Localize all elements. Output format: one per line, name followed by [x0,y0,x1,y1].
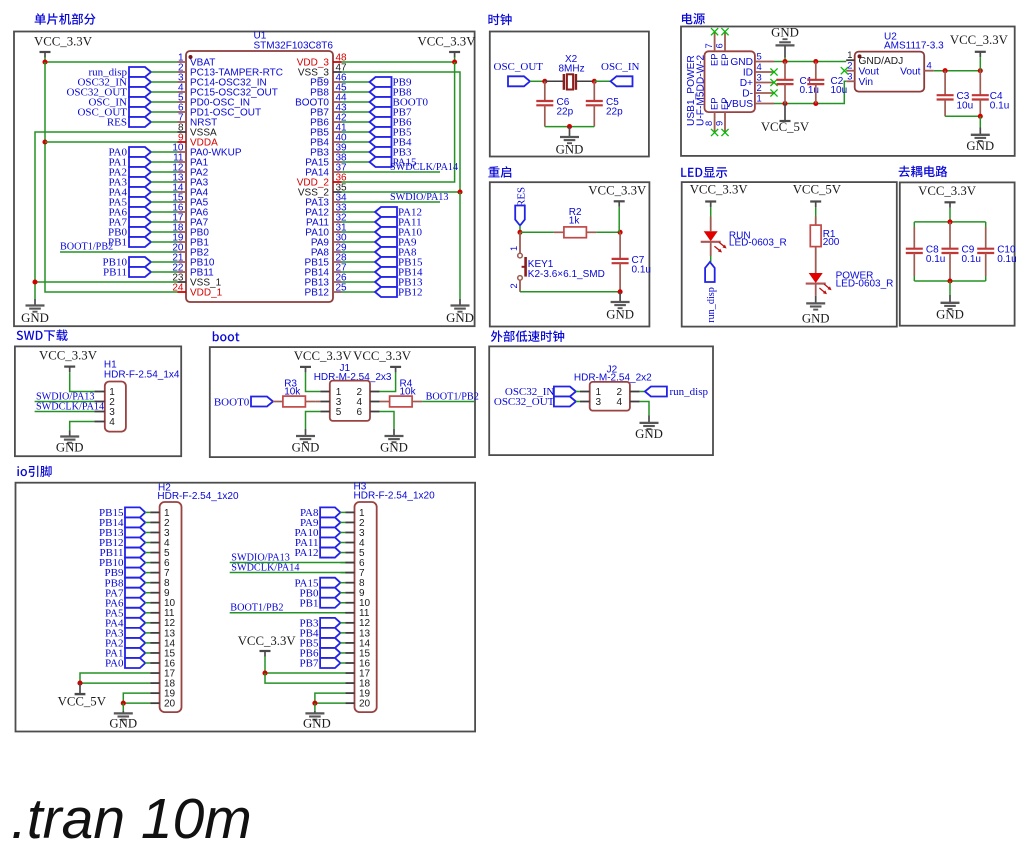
port PA9 (H3 pin 2) [300,517,340,529]
U1 pin 30 (PA9) [311,232,347,248]
svg-text:run_disp: run_disp [670,386,709,398]
wire C8 bottom [913,276,915,281]
U1 pin 8 (VSSA) [178,122,218,138]
port PA9 (U1 pin 30) [342,237,418,249]
port BOOT0 [214,396,273,408]
node junction GND/C2 [813,59,818,64]
U1 pin 7 (NRST) [178,112,218,128]
U1 pin 2 (PC13-TAMPER-RTC) [178,62,283,78]
svg-text:GND: GND [635,427,663,441]
wire Vout rail [934,70,981,72]
U1 pin 16 (PA6) [172,202,208,218]
capacitor C4 0.1u [972,71,1009,117]
wire top rail [914,221,985,223]
port PA2 (H2 pin 14) [105,638,145,650]
svg-text:25: 25 [336,282,348,293]
net label BOOT1/PB2 (H3 pin11) [230,602,355,613]
H2 pin 13 [145,628,175,639]
svg-text:VBUS: VBUS [725,99,753,110]
H3 pin 7 [340,568,365,579]
svg-text:SWDCLK/PA14: SWDCLK/PA14 [390,162,458,173]
port PA5 (H2 pin 11) [105,607,145,619]
port run_disp (pointing up) [705,262,717,323]
H1 pin 3 [94,407,115,418]
port PB4 (U1 pin 40) [342,137,412,149]
wire H3 pin20 [315,702,345,704]
U2 pin 3 (Vin) [846,70,873,88]
svg-text:EP: EP [709,53,720,66]
H1 pin 4 [94,417,115,428]
port PB7 (U1 pin 43) [342,107,412,119]
svg-text:GND/ADJ: GND/ADJ [859,56,904,67]
svg-text:VCC_3.3V: VCC_3.3V [588,184,647,198]
U1 pin 20 (PB2) [172,242,209,258]
svg-text:1: 1 [757,93,762,104]
port run_disp (lse) [645,386,709,398]
U1 pin 19 (PB1) [172,232,209,248]
wire bottom rail [914,280,985,282]
capacitor C10 0.1u [977,227,1016,276]
port PB10 (H2 pin 6) [99,557,145,569]
svg-text:HDR-F-2.54_1x20: HDR-F-2.54_1x20 [157,491,239,502]
port PB1 (H3 pin 10) [300,597,341,609]
H1 pin 2 [94,397,115,408]
port PB6 (U1 pin 42) [342,117,412,129]
port PA11 (H3 pin 4) [295,537,341,549]
power flag VCC_5V (POWER led) [793,182,842,207]
svg-text:4: 4 [617,397,623,408]
svg-text:GND: GND [303,717,331,731]
power flag VCC_3.3V (boot left) [294,349,353,372]
MCU section frame [14,32,475,327]
U1 pin 26 (PB13) [305,272,348,288]
wire C10 bottom [985,276,987,281]
port PB8 (U1 pin 45) [342,87,412,99]
port PA11 (U1 pin 32) [342,217,422,229]
H3 pin 16 [340,658,370,669]
port OSC32_OUT (U1 pin 4) [66,87,177,99]
H3 pin 2 [340,518,365,529]
svg-text:5: 5 [336,407,342,418]
node junction GND/H2 [121,701,126,706]
svg-text:Vout: Vout [859,67,880,78]
header H2 HDR-F-2.54_1x20 [157,482,239,712]
port PB7 (H3 pin 16) [300,658,341,670]
svg-text:GND: GND [802,312,830,326]
svg-text:BOOT0: BOOT0 [214,396,250,408]
USB1 pin 1 (VBUS) [725,93,774,110]
J1 pin 4 [357,397,380,408]
svg-text:VDD_1: VDD_1 [190,288,223,299]
io section frame [16,483,476,732]
node junction VCC/C9 [947,219,952,224]
ground GND (above USB) [771,26,799,62]
H1 pin 1 [94,387,115,398]
J2 pin 3 [580,397,602,408]
H2 pin 1 [145,508,170,519]
section title 电源 [682,13,705,24]
U1 pin 43 (PB7) [310,102,347,118]
wire VCC to J1 pin2 [380,372,396,391]
capacitor C6 22p [536,81,573,126]
node junction Vout/C3 [943,68,948,73]
port PB6 (H3 pin 15) [300,648,341,660]
wire C3 to C4 bottom [945,115,980,117]
power flag VCC_3.3V (MCU left) [34,35,93,58]
svg-text:GND: GND [556,143,584,157]
USB1 pin 9 (EP) [714,97,730,132]
capacitor C7 0.1u [612,232,651,291]
wire R3 to J1 pin3 [315,401,320,403]
U1 pin 34 (PA13) [305,192,347,208]
J2 pin 1 [580,387,602,398]
U1 pin 10 (PA0-WKUP) [172,142,241,158]
svg-text:GND: GND [109,717,137,731]
svg-text:Vin: Vin [859,77,874,88]
svg-text:PB12: PB12 [398,287,422,299]
port OSC32_IN (lse) [505,386,580,398]
J2 pin 2 [617,387,640,398]
svg-text:4: 4 [757,61,762,72]
power flag VCC_3.3V (decoupling) [918,184,977,222]
svg-text:VCC_3.3V: VCC_3.3V [39,349,98,363]
node junction VBUS/C1 [782,101,787,106]
port PA12 (U1 pin 33) [342,207,423,219]
wire node to R2 [520,231,554,233]
U1 pin 23 (VSS_1) [172,272,221,288]
port PB11 (H2 pin 5) [99,547,145,559]
port PB1 (U1 pin 19) [108,237,177,249]
resistor R3 10k [273,379,316,407]
net label SWDIO/PA13 (U1 pin34) [342,192,449,203]
H3 pin 10 [340,598,370,609]
H2 pin 12 [145,618,175,629]
svg-text:PB1: PB1 [300,597,319,609]
section title 去耦电路 [899,166,948,178]
power flag VCC_3.3V (power out) [950,33,1009,71]
port PB15 (H2 pin 1) [99,507,145,519]
wire C8 drop [913,222,915,227]
wire VDD rail right (pin48 to pin36) [342,62,455,182]
H2 pin 5 [145,548,170,559]
port PB10 (U1 pin 21) [103,257,178,269]
net label SWDCLK/PA14 (U1 pin37) [342,162,459,173]
H2 pin 8 [145,578,170,589]
wire LED POWER to GND [815,284,817,296]
svg-text:20: 20 [164,699,176,710]
svg-text:GND: GND [771,26,799,40]
svg-text:VCC_3.3V: VCC_3.3V [690,182,749,196]
node junction VCC_5V/H2 [77,681,82,686]
section title LED显示 [681,167,727,178]
svg-text:VCC_3.3V: VCC_3.3V [918,184,977,198]
wire to GND [949,281,951,295]
ground GND (SWD) [56,431,84,455]
node junction VSS rail/pin23 [32,279,37,284]
port PA7 (U1 pin 17) [108,217,177,229]
power flag VCC_5V (below C1) [761,104,810,134]
LSE section frame [489,346,713,455]
wire H2 pin17 to VCC_5V [80,673,150,683]
U1 pin 17 (PA7) [172,212,208,228]
LED RUN LED-0603_R [701,230,787,252]
port PA4 (U1 pin 14) [108,187,177,199]
U1 pin 38 (PA15) [305,152,347,168]
capacitor C9 0.1u [942,222,981,281]
decoupling section frame [900,182,1015,325]
section title 时钟 [488,14,511,26]
U1 pin 24 (VDD_1) [172,282,222,298]
H3 pin 8 [340,578,365,589]
node junction VDDA pin9 [42,139,47,144]
ground GND (io right) [303,703,331,730]
node junction C7/GND [618,289,623,294]
H3 pin 15 [340,648,370,659]
H3 pin 1 [340,508,365,519]
net label SWDIO/PA13 [35,392,95,403]
wire bottom GND rail [545,126,595,128]
svg-text:HDR-F-2.54_1x4: HDR-F-2.54_1x4 [104,369,180,380]
regulator U2 AMS1117-3.3 [855,31,944,91]
USB1 pin 3 (D+) [740,72,774,89]
U1 pin 4 (PC15-OSC32_OUT) [178,82,278,98]
node junction OSC_IN/C5 [592,79,597,84]
svg-text:4: 4 [109,417,115,428]
port PB14 (U1 pin 27) [342,267,423,279]
power flag VCC_3.3V (reset) [588,184,647,233]
U1 pin 46 (PB9) [310,72,347,88]
H3 pin 17 [345,668,370,679]
U1 pin 5 (PD0-OSC_IN) [178,92,251,108]
USB1 pin 4 (ID) [743,61,774,78]
H3 pin 20 [345,699,370,710]
U1 pin 21 (PB10) [172,252,215,268]
port PB13 (U1 pin 26) [342,277,423,289]
USB1 pin 6 (EP) [714,32,730,66]
H3 pin 3 [340,528,365,539]
svg-text:8MHz: 8MHz [559,63,585,74]
H3 pin 12 [340,618,370,629]
net label SWDCLK/PA14 [35,402,105,413]
svg-text:22p: 22p [557,106,574,117]
ground GND (boot left) [292,429,320,455]
header J2 HDR-M-2.54_2x2 [574,365,652,411]
port PB12 (H2 pin 4) [99,537,145,549]
wire KEY1 to GND rail [520,291,620,293]
port PB0 (U1 pin 18) [108,227,177,239]
U1 pin 18 (PB0) [172,222,209,238]
H2 pin 3 [145,528,170,539]
wire J1 pin6 to GND [380,412,394,430]
H2 pin 14 [145,638,175,649]
U1 pin 22 (PB11) [172,262,214,278]
svg-text:1: 1 [847,49,852,60]
capacitor C8 0.1u [906,227,946,276]
port PB14 (H2 pin 2) [99,517,145,529]
section title 单片机部分 [35,13,96,25]
wire VCC to H1 pin1 [70,372,95,391]
node junction C4/GND [978,114,983,119]
ground GND (lse) [635,416,663,441]
ground GND (boot right) [380,429,408,455]
svg-text:.tran 10m: .tran 10m [11,787,252,851]
power flag VCC_5V (io, points down) [58,683,107,709]
port PA4 (H2 pin 12) [105,617,145,629]
svg-text:GND: GND [446,311,474,325]
header H1 HDR-F-2.54_1x4 [104,360,180,432]
svg-text:VCC_3.3V: VCC_3.3V [294,349,353,363]
svg-text:20: 20 [359,699,371,710]
LED POWER LED-0603_R [806,271,894,295]
svg-text:PA12: PA12 [294,547,318,559]
svg-text:4: 4 [927,60,932,71]
port OSC_OUT (U1 pin 6) [77,107,177,119]
port RES (U1 pin 7) [107,117,178,129]
svg-text:6: 6 [714,43,725,48]
net label BOOT1/PB2 (boot) [422,391,479,402]
wire VCC_5V to R1 [815,207,817,217]
svg-text:22p: 22p [606,106,623,117]
power flag VCC_3.3V (MCU right) [418,35,477,58]
svg-text:VCC_3.3V: VCC_3.3V [238,634,297,648]
header H3 HDR-F-2.54_1x20 [354,481,436,712]
svg-text:GND: GND [56,440,84,454]
H3 pin 11 [340,608,369,619]
svg-text:3: 3 [847,70,852,81]
H2 pin 2 [145,518,170,529]
node junction VCC_3.3V/H3 [262,670,267,675]
svg-text:5: 5 [757,51,762,62]
wire VCC to J1 pin1 [306,372,321,391]
port PA1 (H2 pin 15) [105,648,145,660]
ground GND (reset) [606,292,634,322]
connector USB1 U-F-M5DD-W-2 [686,51,755,126]
boot section frame [210,347,475,457]
section title boot [213,331,240,341]
wire VBUS rail [774,81,846,103]
H2 pin 6 [145,558,170,569]
svg-text:SWDIO/PA13: SWDIO/PA13 [390,192,449,203]
H2 pin 7 [145,568,170,579]
U1 pin 31 (PA10) [305,222,347,238]
wire VCC_3.3V rail down left side [45,62,178,292]
port PB0 (H3 pin 9) [300,587,341,599]
wire C10 drop [985,222,987,227]
H2 pin 17 [150,668,175,679]
svg-text:PB11: PB11 [103,267,127,279]
wire LED RUN to port [710,242,712,256]
svg-text:LED-0603_R: LED-0603_R [836,279,894,290]
power flag VCC_3.3V (boot right) [353,349,412,372]
capacitor C1 0.1u [777,62,819,104]
wire VCC_3.3V right to pin48 [454,57,456,62]
svg-text:10k: 10k [400,387,417,398]
port PA7 (H2 pin 9) [105,587,145,599]
U1 pin 35 (VSS_2) [298,182,347,198]
switch KEY1 K2-3.6x6.1_SMD [508,232,605,291]
svg-text:PB7: PB7 [300,658,319,670]
capacitor C5 22p [586,81,623,126]
ground GND (power) [966,128,994,154]
port BOOT0 (U1 pin 44) [342,97,429,109]
svg-text:BOOT1/PB2: BOOT1/PB2 [60,242,113,253]
power flag VCC_3.3V (SWD) [39,349,98,373]
wire node to OSC_IN port [594,80,610,82]
wire H3 pin19 to GND [315,693,345,703]
no-connect X pin6 [721,28,728,35]
section title io引脚 [17,466,51,477]
net label BOOT1/PB2 (U1 pin20) [60,242,178,253]
wire node to crystal left [545,80,563,82]
svg-text:VCC_3.3V: VCC_3.3V [353,349,412,363]
U2 pin 4 (Vout) [900,60,934,78]
svg-text:0.1u: 0.1u [990,101,1009,112]
U1 pin 29 (PA8) [311,242,347,258]
svg-text:0.1u: 0.1u [997,254,1016,265]
svg-text:10u: 10u [831,85,848,96]
port PA12 (H3 pin 5) [294,547,340,559]
svg-text:200: 200 [823,237,840,248]
USB1 pin 2 (D-) [742,82,774,99]
ground GND (MCU bottom left) [21,299,49,325]
port PB13 (H2 pin 3) [99,527,145,539]
U2 pin 1 (GND/ADJ) [846,49,903,67]
svg-text:BOOT1/PB2: BOOT1/PB2 [230,602,283,613]
svg-text:VCC_3.3V: VCC_3.3V [950,33,1009,47]
node junction GND/H3 [312,701,317,706]
U1 pin 33 (PA12) [305,202,347,218]
wire VDDA pin9 [45,141,178,143]
port PB3 (H3 pin 12) [300,617,341,629]
port RES (pointing down) [515,187,527,226]
svg-text:OSC32_OUT: OSC32_OUT [494,396,555,408]
wire VSS_2 pin35 [342,191,461,193]
wire J2 pin4 to GND [640,402,649,416]
svg-text:EP: EP [709,97,720,110]
J1 pin 5 [320,407,341,418]
wire R1 to LED POWER [815,247,817,273]
H3 pin 9 [340,588,365,599]
power flag VCC_3.3V (io) [238,634,297,673]
svg-text:AMS1117-3.3: AMS1117-3.3 [884,41,944,52]
svg-text:10u: 10u [957,101,974,112]
USB1 pin 7 (EP) [703,32,719,66]
USB1 pin 5 (GND) [730,51,774,68]
H3 pin 6 [340,558,365,569]
U1 pin 3 (PC14-OSC32_IN) [178,72,267,88]
svg-text:PA0: PA0 [105,658,124,670]
power flag VCC_3.3V (RUN led) [690,182,749,207]
U1 pin 36 (VDD_2) [297,172,347,188]
svg-text:GND: GND [21,311,49,325]
ground GND (io left) [109,703,137,730]
H3 pin 4 [340,538,365,549]
H3 pin 13 [340,628,370,639]
H3 pin 5 [340,548,365,559]
port PB9 (U1 pin 46) [342,77,412,89]
U1 pin 32 (PA11) [306,212,347,228]
node junction GND [567,124,572,129]
H2 pin 4 [145,538,170,549]
port run_disp (U1 pin 2) [89,67,178,79]
clock section frame [490,32,649,157]
port PB5 (U1 pin 41) [342,127,412,139]
svg-text:8: 8 [703,121,714,126]
node junction GND/C1 [782,59,787,64]
section title 重启 [488,166,511,178]
U1 pin 15 (PA5) [172,192,208,208]
port PB15 (U1 pin 28) [342,257,423,269]
